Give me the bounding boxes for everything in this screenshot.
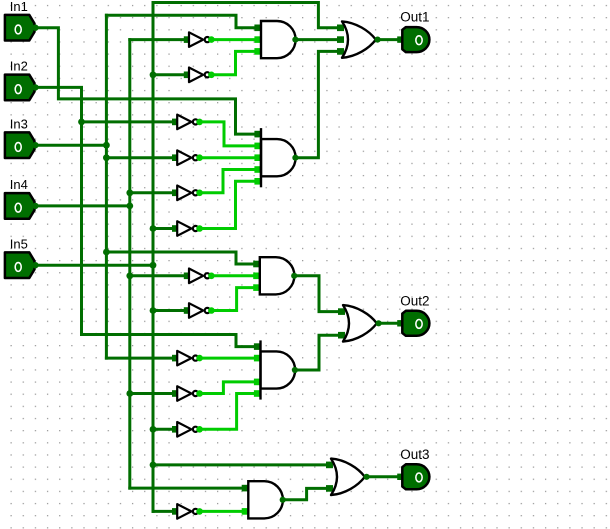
- input In2: [5, 59, 39, 101]
- output Out1: [397, 10, 429, 52]
- junction In5 bus / NOT U11: [150, 426, 157, 433]
- NOT gate U8 (In5 inverter, row 310): [184, 303, 215, 318]
- wire NOT U4 output to AND2 pin3: [200, 156, 255, 159]
- NOT gate U2 (In5 inverter, row 75): [184, 68, 215, 83]
- wire NOT U1 output to AND1 pin2: [211, 38, 255, 41]
- AND gate AND5 (2-input): [242, 481, 286, 518]
- wire In3 net: In3 to bus: [36, 144, 106, 147]
- junction In5 bus / OR3 rail: [150, 462, 157, 469]
- NOT gate U1 (In4 inverter, row 40): [184, 32, 215, 47]
- NOT gate U7 (In4 inverter, row 276): [184, 269, 215, 284]
- junction In4 source: [126, 203, 133, 210]
- wire NOT U3 output to AND2 pin2: [200, 122, 255, 146]
- NOT gate U10 (In4 inverter, row 393): [172, 386, 203, 401]
- wire OR3 output to Out3: [366, 475, 400, 478]
- wire In3 net: branch to NOT U4 input: [106, 156, 172, 159]
- wire NOT U10 output to AND4 pin3: [200, 382, 255, 394]
- NOT gate U6 (In5 inverter, row 228): [172, 221, 203, 236]
- output Out3: [397, 447, 429, 489]
- wire NOT U6 output to AND2 pin5: [200, 181, 255, 228]
- wire In5 net: top rail to OR1 pin1: [153, 3, 338, 28]
- wire NOT U9 output to AND4 pin2: [200, 357, 255, 360]
- wire NOT U2 output to AND1 pin3: [211, 51, 255, 74]
- NOT gate U3 (In2 inverter, row 122): [172, 115, 203, 130]
- svg-text:In1: In1: [10, 0, 28, 14]
- input In1: [5, 0, 39, 40]
- wire AND2 output to OR1 pin3: [297, 51, 338, 157]
- junction In3 source: [103, 142, 110, 149]
- junction In3 bus / AND3 rail: [103, 249, 110, 256]
- wire In4 net: branch to NOT U1 input: [130, 38, 185, 41]
- junction In5 bus / NOT U6: [150, 225, 157, 232]
- wire In4 net: rail to AND5 pin1: [130, 487, 244, 490]
- wire In4 net: branch to NOT U5 input: [130, 191, 173, 194]
- wire OR2 output to Out2: [378, 322, 400, 325]
- NOT gate U4 (In3 inverter, row 158): [172, 150, 203, 165]
- wire NOT U11 output to AND4 pin4: [200, 394, 255, 430]
- AND gate AND4 (4-input): [254, 340, 298, 399]
- OR gate OR2 (2-input): [338, 305, 382, 341]
- junction In4 bus / NOT U7: [126, 272, 133, 279]
- NOT gate U11 (In5 inverter, row 429): [172, 422, 203, 437]
- junction In4 bus / NOT U10: [126, 390, 133, 397]
- wire In4 net: branch to NOT U10 input: [130, 392, 173, 395]
- wire In5 net: branch to NOT U8 input: [153, 309, 184, 312]
- wire In4 net: branch to NOT U7 input: [130, 274, 185, 277]
- svg-text:In5: In5: [10, 236, 28, 251]
- wire In3 net: top rail to AND1 pin1: [106, 15, 256, 28]
- wire AND4 output to OR2 pin2: [296, 335, 339, 370]
- AND gate AND2 (5-input): [254, 128, 298, 187]
- wire In3 net: branch to AND3 pin1: [106, 252, 254, 264]
- output Out2: [397, 293, 429, 335]
- wire In5 net: branch to NOT U6 input: [153, 227, 173, 230]
- wire OR1 output to Out1: [377, 38, 400, 41]
- wire In3 net: vertical bus: [105, 15, 108, 358]
- wire In1 net: In1 to AND2 pin1: [36, 28, 256, 134]
- wire AND3 output to OR2 pin1: [295, 276, 339, 312]
- junction In2 bus / NOT U3: [78, 119, 85, 126]
- wire NOT U8 output to AND3 pin3: [211, 288, 253, 311]
- wire NOT U12 output to AND5 pin2: [200, 510, 244, 513]
- wire NOT U5 output to AND2 pin4: [200, 170, 255, 193]
- input In4: [5, 177, 39, 219]
- NOT gate U5 (In4 inverter, row 193): [172, 186, 203, 201]
- wire In4 net: In4 to bus: [36, 204, 130, 207]
- svg-text:In2: In2: [10, 59, 28, 74]
- AND gate AND1 (3-input): [254, 21, 298, 58]
- junction In3 bus / NOT U4: [103, 154, 110, 161]
- wire NOT U7 output to AND3 pin2: [211, 274, 253, 277]
- junction In5 bus / NOT U8: [150, 307, 157, 314]
- svg-text:In3: In3: [10, 116, 28, 131]
- svg-text:Out1: Out1: [400, 10, 429, 25]
- wire In3 net: branch to NOT U9 input: [106, 357, 172, 360]
- NOT gate U9 (In3 inverter, row 358): [172, 351, 203, 366]
- junction In5 bus / NOT U2: [150, 71, 157, 78]
- wire In4 net: vertical bus: [128, 40, 131, 489]
- OR gate OR1 (3-input): [337, 21, 381, 57]
- wire In2 net: In2 to AND4 pin1: [36, 87, 256, 346]
- wire In5 net: branch to NOT U2 input: [153, 73, 184, 76]
- wire In5 net: In5 to bus: [36, 264, 153, 267]
- wire AND5 output to OR3 pin2: [284, 488, 327, 499]
- svg-text:Out3: Out3: [400, 447, 429, 462]
- wire In5 net: rail to OR3 pin1: [153, 463, 327, 466]
- wire In5 net: vertical bus: [152, 3, 155, 512]
- wire In5 net: branch to NOT U11 input: [153, 428, 173, 431]
- wire In2 net: branch to NOT U3 input: [82, 120, 173, 123]
- svg-text:In4: In4: [10, 177, 28, 192]
- input In5: [5, 236, 39, 278]
- OR gate OR3 (2-input): [326, 459, 370, 495]
- junction In4 bus / NOT U5: [126, 189, 133, 196]
- wire AND1 output to OR1 pin2: [297, 38, 338, 41]
- junction In5 source: [150, 262, 157, 269]
- AND gate AND3 (3-input): [253, 257, 297, 294]
- NOT gate U12 (In5 inverter, row 511): [172, 504, 203, 519]
- wire In5 net: branch to NOT U12 input: [153, 510, 173, 513]
- input In3: [5, 116, 39, 158]
- svg-text:Out2: Out2: [400, 293, 429, 308]
